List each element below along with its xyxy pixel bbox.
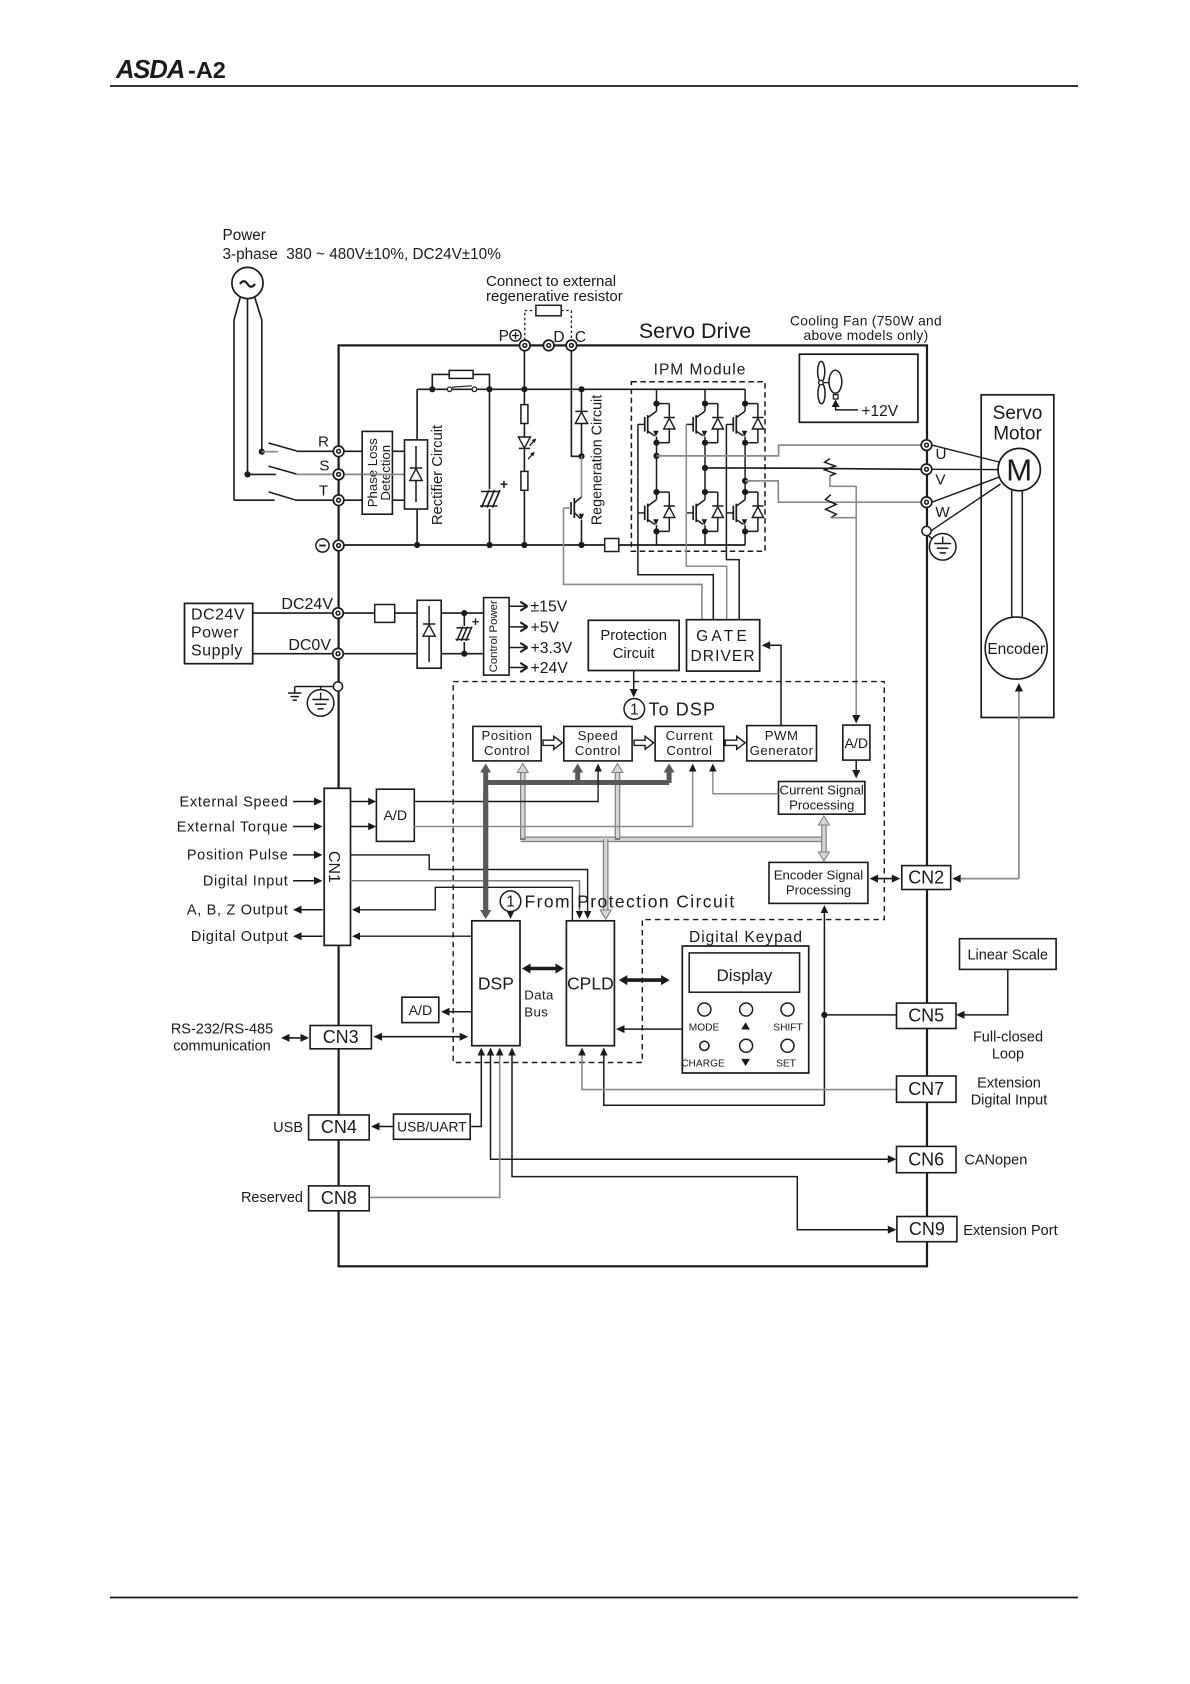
servo motor box: [981, 395, 1054, 718]
wire A/D to current signal processing: [855, 760, 857, 772]
wire encoder feedback: [1015, 683, 1023, 879]
terminal D: [543, 340, 554, 351]
svg-text:A, B, Z Output: A, B, Z Output: [187, 903, 289, 919]
connector CN7: [897, 1076, 957, 1102]
svg-text:P: P: [499, 328, 509, 345]
wire leg 3 to N rail: [744, 531, 746, 545]
wire filter to diode: [395, 612, 417, 614]
IPM leg 3 upper connection to P rail: [744, 389, 746, 403]
wire CN5 to net: [824, 1014, 896, 1016]
wire position pulse to CPLD: [351, 855, 592, 919]
wire DSP to CN9: [508, 1048, 896, 1234]
wire CN7 to CPLD: [578, 1048, 896, 1090]
servo drive enclosure box: [339, 345, 927, 1266]
IPM leg 1 upper connection to P rail: [656, 389, 658, 403]
terminal P: [520, 340, 531, 351]
svg-text:Bus: Bus: [524, 1005, 548, 1020]
svg-text:Detection: Detection: [378, 445, 393, 501]
svg-text:CANopen: CANopen: [964, 1153, 1027, 1169]
current sensor W phase: [826, 495, 837, 518]
svg-text:CN8: CN8: [321, 1188, 357, 1208]
wires diode to control power: [441, 612, 483, 614]
svg-text:CN7: CN7: [908, 1079, 944, 1099]
arrow A, B, Z Output: [293, 906, 323, 914]
wire DC24V: [253, 612, 333, 614]
svg-text:S: S: [319, 458, 329, 475]
wire phase U output: [657, 445, 922, 456]
wire CN5 net bottom to CPLD: [600, 1048, 824, 1106]
terminal R: [333, 446, 344, 457]
svg-text:Rectifier Circuit: Rectifier Circuit: [430, 425, 446, 525]
svg-text:Speed: Speed: [578, 728, 619, 743]
svg-text:R: R: [318, 434, 329, 451]
connector CN6: [897, 1146, 957, 1172]
wire phase node leg 1: [656, 443, 658, 492]
svg-text:CN4: CN4: [321, 1117, 357, 1137]
svg-text:From Protection Circuit: From Protection Circuit: [525, 892, 736, 912]
wire DC0V to diode: [343, 653, 417, 655]
svg-text:W: W: [935, 504, 950, 521]
IPM module dashed box: [631, 382, 765, 552]
gate wire leg 1: [637, 424, 639, 513]
arrow External Speed: [293, 798, 323, 806]
wire S to PLD: [344, 473, 362, 475]
svg-text:CN6: CN6: [908, 1150, 944, 1170]
wire CSP to current control: [709, 764, 778, 794]
down arrow key: [741, 1059, 750, 1066]
dark data arrow overdraw: [483, 790, 488, 913]
light arrow to CPLD: [600, 839, 611, 919]
connector CN9: [897, 1217, 957, 1242]
speed control box: [564, 726, 632, 761]
node 1 From Protection Circuit: [500, 891, 735, 912]
svg-text:Control: Control: [575, 743, 621, 758]
wire phase node leg 2: [704, 443, 706, 492]
svg-text:above models only): above models only): [803, 328, 928, 343]
svg-text:CPLD: CPLD: [567, 974, 614, 994]
svg-text:CN2: CN2: [908, 868, 944, 888]
AC source: [232, 267, 263, 298]
svg-text:A/D: A/D: [844, 736, 868, 752]
IPM upper IGBT leg 2: [686, 401, 723, 446]
connector CN5: [897, 1003, 957, 1028]
gate driver box U4: [687, 620, 760, 671]
wire DC0V: [253, 653, 333, 655]
protective earth symbol: [307, 687, 334, 717]
position control box: [473, 726, 541, 761]
wires motor leads: [931, 445, 1001, 531]
wire PLD to rectifier S: [392, 473, 404, 475]
svg-text:Current: Current: [666, 728, 713, 743]
svg-text:Linear Scale: Linear Scale: [967, 948, 1048, 964]
svg-text:To DSP: To DSP: [649, 699, 717, 719]
svg-text:CN9: CN9: [909, 1219, 945, 1239]
wire S inside PLD: [362, 473, 392, 475]
svg-text:A/D: A/D: [409, 1003, 433, 1019]
current signal processing box: [779, 782, 865, 815]
switch S: [244, 466, 333, 477]
svg-text:Power: Power: [223, 227, 266, 244]
wire leg 1 to N rail: [656, 531, 658, 545]
encoder signal processing box: [769, 862, 868, 903]
wire P rail: [417, 388, 745, 390]
connector CN3: [310, 1026, 371, 1049]
svg-text:Encoder Signal: Encoder Signal: [774, 868, 864, 883]
svg-text:communication: communication: [173, 1039, 271, 1055]
svg-text:CN3: CN3: [323, 1027, 359, 1047]
protection circuit box: [588, 620, 679, 670]
label P terminal: [499, 328, 521, 345]
wire A/D speed to speed control: [414, 764, 602, 802]
encoder: [985, 617, 1047, 679]
wire R to PLD: [344, 450, 362, 452]
DSP box U1: [472, 921, 520, 1046]
keypad buttons row 1: [698, 1003, 794, 1016]
svg-text:MODE: MODE: [689, 1023, 720, 1034]
svg-text:Supply: Supply: [191, 643, 243, 660]
svg-text:Power: Power: [191, 625, 239, 642]
svg-text:External Torque: External Torque: [177, 820, 289, 836]
svg-text:RS-232/RS-485: RS-232/RS-485: [171, 1022, 273, 1038]
wire phase node leg 3: [744, 443, 746, 492]
terminal S: [333, 469, 344, 480]
wire A B Z output from CPLD: [352, 887, 572, 921]
terminal U: [921, 440, 932, 451]
svg-text:DRIVER: DRIVER: [691, 648, 756, 665]
wire phase feed R: [255, 297, 262, 452]
regeneration diode: [575, 386, 587, 459]
svg-text:regenerative resistor: regenerative resistor: [486, 288, 623, 305]
svg-text:Servo Drive: Servo Drive: [639, 319, 751, 343]
IPM upper IGBT leg 3: [726, 401, 763, 446]
wire external speed to A/D: [351, 801, 373, 803]
wires motor shaft to encoder: [1011, 490, 1013, 619]
display box: [689, 953, 799, 992]
svg-text:Motor: Motor: [993, 424, 1042, 445]
svg-text:DC0V: DC0V: [288, 637, 331, 654]
dark data bus horizontal: [486, 780, 669, 785]
svg-text:SET: SET: [776, 1059, 796, 1070]
svg-text:USB/UART: USB/UART: [397, 1120, 467, 1135]
terminal motor earth: [922, 526, 931, 535]
phase loss detection box: [362, 431, 392, 514]
svg-text:Generator: Generator: [750, 743, 814, 758]
wire PLD to rectifier R: [392, 450, 404, 452]
charge indicator LED: [518, 437, 536, 459]
svg-text:Cooling Fan (750W and: Cooling Fan (750W and: [790, 314, 942, 329]
svg-text:SHIFT: SHIFT: [773, 1023, 802, 1034]
node 1 To DSP: [624, 699, 716, 720]
wire phase feed T: [234, 297, 241, 501]
footer rule: [110, 1597, 1078, 1599]
svg-text:1: 1: [506, 894, 515, 911]
relay contact on P rail: [447, 386, 476, 392]
wire CN8 to DSP: [369, 1048, 503, 1198]
svg-text:A/D: A/D: [383, 808, 407, 824]
svg-text:External Speed: External Speed: [180, 795, 289, 811]
terminal DC24V: [333, 608, 344, 619]
current control box: [655, 726, 724, 761]
light feedback bus horizontal: [521, 836, 824, 842]
wire keypad to CPLD: [616, 1025, 682, 1033]
svg-text:Control: Control: [666, 743, 712, 758]
control diode box: [417, 600, 441, 668]
wire protection circuit to node 1: [633, 671, 635, 691]
double arrow ESP-CN2: [870, 875, 901, 883]
rectifier circuit box: [405, 440, 428, 509]
control power box: [484, 598, 510, 676]
terminal W: [921, 497, 932, 508]
wire phase feed S: [247, 299, 249, 475]
light arrow to CPLD overdraw: [603, 841, 609, 914]
svg-text:T: T: [319, 483, 328, 500]
A/D converter (current): [843, 725, 870, 760]
dark arrow to speed control: [572, 764, 583, 784]
control capacitor: [454, 610, 479, 657]
svg-text:Extension: Extension: [977, 1076, 1041, 1092]
terminal C: [566, 340, 577, 351]
svg-text:+: +: [472, 615, 479, 629]
svg-text:+24V: +24V: [531, 660, 569, 677]
terminal minus: [316, 539, 344, 552]
switch R: [259, 443, 334, 455]
svg-text:Data: Data: [524, 988, 554, 1003]
svg-text:DSP: DSP: [478, 974, 514, 994]
wire phase V output: [705, 467, 830, 469]
svg-text:+3.3V: +3.3V: [531, 640, 573, 657]
DSP section dashed boundary: [453, 682, 884, 1063]
regeneration IGBT: [564, 456, 585, 548]
wire digital input to CPLD: [351, 881, 584, 919]
svg-text:PWM: PWM: [765, 728, 799, 743]
arrow RS-232 to CN3: [281, 1034, 309, 1042]
IPM leg 2 upper connection to P rail: [704, 389, 706, 403]
svg-text:CN5: CN5: [908, 1006, 944, 1026]
svg-text:Display: Display: [717, 966, 773, 985]
svg-text:CHARGE: CHARGE: [681, 1059, 725, 1070]
A/D converter (analog inputs): [376, 789, 414, 841]
data arrow position control to DSP (dark): [480, 764, 491, 920]
svg-text:Extension Port: Extension Port: [963, 1223, 1057, 1239]
svg-text:+5V: +5V: [531, 619, 560, 636]
wire DSP to CN6: [487, 1048, 897, 1164]
wire rectifier to N rail: [416, 509, 418, 545]
motor earth symbol: [928, 534, 957, 561]
IPM lower IGBT leg 3: [726, 489, 763, 535]
wire DC24V to filter: [343, 612, 374, 614]
chassis ground: [288, 687, 334, 701]
DC24V power supply box: [185, 603, 253, 663]
flow arrow current to PWM: [725, 736, 745, 749]
keypad buttons row 2: [700, 1039, 794, 1052]
wire C terminal drop: [571, 351, 581, 457]
svg-text:Control: Control: [484, 743, 530, 758]
svg-text:U: U: [936, 446, 947, 463]
arrow CN3 to DSP: [374, 1033, 469, 1041]
wire P terminal drop: [523, 351, 525, 390]
arrow encoder line to CN2: [952, 875, 1019, 883]
svg-text:Digital Output: Digital Output: [191, 929, 289, 945]
svg-text:Digital Input: Digital Input: [203, 874, 289, 890]
logo ASDA-A2: [115, 56, 226, 84]
wire USB/UART to DSP: [470, 1048, 485, 1127]
wire linear scale to CN5: [956, 969, 1008, 1019]
charge indicator resistor 2: [521, 448, 528, 548]
flow arrow position to speed: [543, 736, 562, 749]
data bus double arrow DSP-CPLD: [522, 964, 564, 974]
IPM upper IGBT leg 1: [638, 401, 675, 446]
dark arrow to current control: [664, 764, 675, 784]
svg-text:M: M: [1006, 453, 1032, 488]
arrow USB/UART to CN4: [371, 1123, 394, 1131]
svg-text:V: V: [935, 472, 946, 489]
bus capacitor: [478, 386, 508, 548]
svg-text:Regeneration Circuit: Regeneration Circuit: [590, 395, 606, 525]
svg-text:DC24V: DC24V: [281, 596, 333, 613]
terminal V: [921, 464, 932, 475]
motor M: [998, 448, 1040, 490]
cooling fan box: [799, 354, 918, 422]
double arrow CPLD-keypad: [619, 975, 670, 985]
svg-text:Digital Keypad: Digital Keypad: [689, 929, 803, 946]
svg-text:-A2: -A2: [188, 57, 226, 83]
svg-text:±15V: ±15V: [531, 599, 568, 616]
svg-text:IPM Module: IPM Module: [654, 362, 747, 379]
svg-text:ASDA: ASDA: [115, 56, 184, 84]
svg-text:D: D: [553, 329, 564, 346]
arrow External Torque: [293, 823, 323, 831]
light arrow to speed control: [612, 764, 623, 841]
linear scale box: [960, 939, 1057, 970]
light arrow to position control: [517, 764, 528, 841]
svg-text:Loop: Loop: [992, 1047, 1024, 1063]
filter element: [375, 605, 395, 623]
wire current sense taps: [830, 476, 860, 723]
connector CN2: [902, 866, 951, 890]
shunt element on N rail: [605, 539, 619, 552]
wire rectifier to P rail: [416, 389, 418, 440]
svg-text:Processing: Processing: [789, 798, 854, 813]
svg-text:+12V: +12V: [862, 403, 899, 420]
svg-text:GATE: GATE: [696, 628, 750, 645]
svg-text:1: 1: [630, 701, 639, 718]
charge indicator resistor 1: [521, 386, 528, 437]
wire phase W output: [745, 481, 831, 502]
svg-text:Encoder: Encoder: [987, 641, 1045, 658]
flow arrow speed to current: [634, 736, 654, 749]
arrow Digital Output: [293, 932, 323, 940]
wire digital output from DSP: [352, 932, 472, 940]
CPLD box U2: [566, 921, 614, 1046]
svg-text:Servo: Servo: [993, 403, 1043, 424]
header rule: [110, 85, 1078, 87]
svg-text:Full-closed: Full-closed: [973, 1030, 1043, 1046]
svg-text:USB: USB: [273, 1120, 303, 1136]
svg-text:Control Power: Control Power: [488, 600, 500, 672]
terminal T: [333, 495, 344, 506]
arrow Digital Input: [293, 877, 323, 885]
wire PLD to rectifier T: [392, 499, 404, 501]
connector CN4: [309, 1115, 370, 1140]
external regenerative resistor (dashed): [525, 305, 572, 340]
terminal DC0V: [333, 648, 344, 659]
svg-text:Circuit: Circuit: [613, 646, 655, 662]
wire PWM to gate driver: [762, 641, 781, 725]
wire external torque to A/D: [351, 826, 373, 828]
svg-text:Reserved: Reserved: [241, 1190, 303, 1206]
svg-text:Position: Position: [482, 728, 533, 743]
terminal ground stud: [333, 682, 342, 691]
connector CN1: [324, 788, 350, 945]
soft charge resistor bypass: [429, 370, 489, 392]
svg-text:CN1: CN1: [325, 851, 342, 883]
control power outputs: [509, 599, 573, 677]
wire T to PLD: [344, 499, 362, 501]
wire CN5 net vertical: [821, 905, 829, 1105]
gate wire leg 2: [685, 424, 687, 513]
IPM lower IGBT leg 2: [686, 489, 723, 535]
USB/UART box: [394, 1114, 471, 1139]
wire leg 2 to N rail: [704, 531, 706, 545]
digital keypad box: [682, 946, 808, 1073]
IPM lower IGBT leg 1: [638, 489, 675, 535]
svg-text:Position Pulse: Position Pulse: [187, 848, 289, 864]
A/D converter (DSP aux): [402, 997, 439, 1022]
up arrow key: [741, 1022, 750, 1029]
switch T: [234, 492, 333, 500]
cooling fan symbol: [818, 361, 899, 420]
current sensor V phase: [825, 459, 836, 477]
svg-text:Protection: Protection: [600, 628, 667, 644]
gate wire leg 3: [725, 424, 727, 513]
wire N rail (bus negative): [339, 544, 605, 546]
arrow Position Pulse: [293, 851, 323, 859]
svg-text:+: +: [500, 476, 508, 492]
wire node 1 to DSP: [507, 911, 515, 919]
wire regen gate to gate driver: [564, 508, 702, 620]
svg-text:DC24V: DC24V: [191, 607, 245, 624]
PWM generator box: [747, 726, 817, 761]
svg-text:Processing: Processing: [786, 883, 851, 898]
connector CN8: [309, 1186, 370, 1211]
light double arrow CSP/ESP: [818, 816, 829, 861]
svg-text:Digital Input: Digital Input: [971, 1093, 1048, 1109]
svg-text:3-phase 380 ~ 480V±10%, DC24V: 3-phase 380 ~ 480V±10%, DC24V±10%: [223, 246, 502, 263]
svg-text:Current Signal: Current Signal: [780, 783, 864, 798]
wire A/D torque to current control: [414, 764, 696, 827]
wire DSP to aux A/D: [441, 1008, 472, 1016]
